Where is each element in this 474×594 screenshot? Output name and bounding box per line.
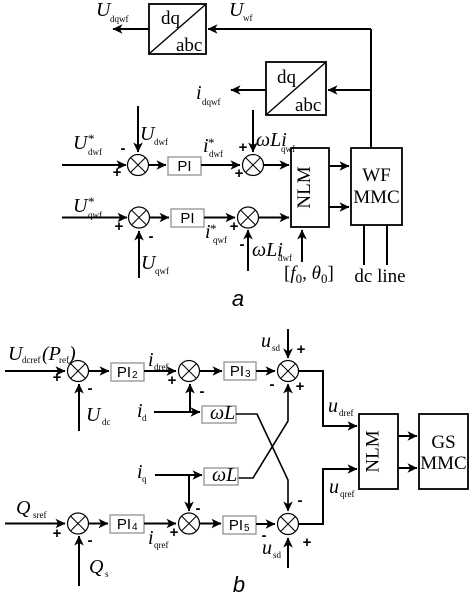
node U_dwf label	[140, 123, 168, 147]
svg-text:i: i	[196, 82, 202, 104]
svg-text:dq: dq	[161, 8, 181, 29]
svg-text:WF: WF	[362, 165, 391, 186]
wire i_q into omega-L bottom	[155, 474, 202, 476]
svg-text:GS: GS	[431, 432, 455, 453]
wire U_dqwf output from dq/abc block 1	[113, 28, 149, 30]
controller PI3	[224, 362, 256, 380]
wire PI4 to summer B5	[144, 523, 176, 525]
block GS MMC	[419, 414, 468, 489]
transform block dq/abc U1	[149, 4, 206, 56]
svg-text:4: 4	[132, 522, 138, 533]
node omega-L-i_dwf label	[252, 239, 292, 263]
wire i_dqwf output of block U2	[231, 89, 266, 91]
svg-text:PI: PI	[117, 516, 131, 533]
svg-text:MMC: MMC	[353, 187, 399, 208]
wire summer B6 output to NLM b (u_qref)	[299, 469, 358, 524]
summer S2	[243, 155, 264, 176]
svg-text:*: *	[210, 221, 217, 236]
svg-text:2: 2	[132, 370, 138, 381]
wire U_qwf up into summer S3	[138, 231, 140, 278]
svg-text:qref: qref	[340, 489, 355, 499]
svg-text:abc: abc	[176, 35, 202, 56]
controller PI a2	[171, 209, 204, 227]
wire NLM a to WF MMC lower	[329, 206, 349, 208]
svg-text:-: -	[200, 383, 205, 400]
svg-text:ref: ref	[59, 355, 69, 365]
svg-text:U: U	[86, 404, 102, 426]
summer B3	[278, 361, 299, 382]
node i_qref label	[148, 527, 169, 550]
wire f0 theta0 up into NLM a	[301, 230, 303, 262]
svg-text:s: s	[105, 569, 109, 579]
svg-text:+: +	[53, 525, 62, 542]
svg-text:+: +	[296, 378, 305, 395]
wire U_wf input to block U1	[208, 28, 371, 30]
svg-text:i: i	[148, 349, 154, 371]
node U_wf label	[229, 0, 253, 23]
svg-text:ωL: ωL	[212, 464, 237, 486]
controller PI4	[110, 515, 144, 533]
svg-text:U: U	[73, 132, 89, 154]
wire i_q branch down into summer B5	[188, 475, 190, 511]
wire summer S2 to NLM a	[264, 164, 290, 166]
wire summer B4 to PI4	[89, 523, 109, 525]
svg-text:PI: PI	[177, 158, 191, 175]
svg-text:Q: Q	[16, 497, 31, 519]
wire NLM a to WF MMC upper	[329, 165, 349, 167]
svg-text:U: U	[73, 195, 89, 217]
svg-text:-: -	[298, 492, 303, 509]
svg-text:PI: PI	[229, 517, 243, 534]
svg-text:-: -	[196, 500, 201, 517]
wire summer B5 to PI5	[200, 523, 222, 525]
svg-text:wf: wf	[243, 13, 253, 23]
node i_dqwf label	[196, 82, 221, 107]
svg-text:NLM: NLM	[294, 166, 315, 208]
node U_qwf label	[141, 252, 169, 276]
wire PI3 to summer B3	[256, 370, 275, 372]
svg-text:u: u	[262, 537, 272, 559]
svg-text:abc: abc	[295, 95, 321, 116]
node U*_dwf label	[73, 131, 102, 157]
svg-text:+: +	[53, 369, 62, 386]
svg-text:-: -	[88, 532, 93, 549]
wire U_dc up into summer B1	[78, 384, 80, 431]
svg-text:u: u	[261, 330, 271, 352]
wire PI a1 to summer S2	[201, 164, 240, 166]
node U_dcref (P_ref) label	[8, 343, 76, 365]
svg-text:*: *	[208, 135, 215, 150]
svg-text:qwf: qwf	[281, 144, 295, 154]
node omega-L-i_qwf label	[256, 129, 295, 154]
svg-text:dqwf: dqwf	[202, 97, 221, 107]
wire PI5 to summer B6	[256, 523, 275, 525]
svg-text:q: q	[142, 474, 147, 484]
controller PI5	[223, 516, 256, 534]
svg-text:*: *	[88, 131, 95, 146]
svg-text:d: d	[142, 413, 147, 423]
summer S4	[238, 207, 259, 228]
wire NLM b to GS MMC lower	[398, 467, 417, 469]
wire Q_sref into summer B4	[5, 523, 65, 525]
wire dc line left	[363, 225, 365, 265]
controller PI a1	[168, 157, 201, 175]
node U_dqwf label	[96, 0, 129, 24]
svg-text:+: +	[115, 218, 124, 235]
svg-text:5: 5	[244, 523, 250, 534]
svg-text:qwf: qwf	[213, 235, 227, 245]
summer B1	[68, 361, 89, 382]
wire summer S3 to PI a2	[150, 217, 170, 219]
wire summer B3 output to NLM b (u_dref)	[299, 371, 358, 426]
node Q_sref label	[16, 497, 47, 520]
svg-text:+: +	[303, 534, 312, 551]
svg-text:dcref: dcref	[22, 355, 40, 365]
block NLM b	[359, 414, 398, 489]
svg-text:dwf: dwf	[209, 149, 223, 159]
wire U*_qwf into summer S3	[62, 217, 127, 219]
summer B4	[68, 513, 89, 534]
svg-text:*: *	[88, 194, 95, 209]
svg-text:NLM: NLM	[363, 430, 384, 472]
gain block omega-L bottom	[204, 464, 238, 486]
wire i_d branch up into summer B2	[189, 384, 191, 412]
block NLM a	[291, 148, 329, 227]
wire PI a2 to summer S4	[204, 217, 235, 219]
wire summer B1 to PI2	[89, 370, 110, 372]
svg-text:sd: sd	[272, 343, 281, 353]
svg-text:dc line: dc line	[354, 266, 405, 287]
wire U*_dwf into summer S1	[62, 164, 126, 166]
svg-text:-: -	[240, 236, 245, 253]
summer S3	[129, 207, 150, 228]
wire U_dwf down into summer S1	[137, 106, 139, 152]
svg-text:-: -	[88, 380, 93, 397]
svg-text:dc: dc	[102, 417, 111, 427]
wire summer S1 to PI a1	[149, 164, 167, 166]
controller PI2	[111, 363, 144, 381]
svg-text:sref: sref	[33, 510, 47, 520]
node f0 theta0 label	[284, 263, 334, 286]
svg-text:+: +	[230, 218, 239, 235]
svg-text:PI: PI	[230, 363, 244, 380]
svg-text:+: +	[297, 341, 306, 358]
svg-text:dwf: dwf	[88, 147, 102, 157]
node u_qref label	[329, 476, 355, 499]
svg-text:qwf: qwf	[155, 266, 169, 276]
svg-text:-: -	[121, 140, 126, 157]
summer B2	[179, 361, 200, 382]
svg-text:dref: dref	[339, 408, 354, 418]
wire u_sd up into summer B6	[287, 538, 289, 568]
wire dc line right	[386, 225, 388, 265]
svg-text:-: -	[149, 228, 154, 245]
node u_dref label	[328, 395, 354, 418]
wire omega-L-i_dwf up into summer S4	[247, 230, 249, 271]
svg-text:dwf: dwf	[278, 253, 292, 263]
svg-text:dq: dq	[277, 67, 297, 88]
wire U_dcref into summer B1	[5, 370, 65, 372]
svg-text:+: +	[168, 372, 177, 389]
svg-text:dwf: dwf	[154, 137, 168, 147]
svg-text:PI: PI	[180, 210, 194, 227]
svg-text:qref: qref	[154, 540, 169, 550]
svg-text:u: u	[329, 476, 339, 498]
wire branch into dq/abc block 2	[328, 89, 371, 91]
summer S1	[128, 155, 149, 176]
node U_dc label	[86, 404, 111, 427]
wire Q_s up into summer B4	[78, 536, 80, 586]
svg-text:a: a	[232, 286, 244, 311]
svg-text:i: i	[148, 527, 154, 549]
wire summer B2 to PI3	[200, 370, 223, 372]
svg-text:u: u	[328, 395, 338, 417]
wire vertical bus from U_wf down to WF MMC	[370, 29, 372, 148]
wire omega-L-i_qwf down into summer S2	[252, 110, 254, 152]
wire omega-L top output crossing down into summer B6	[236, 414, 288, 511]
summer B6	[278, 514, 299, 535]
wire summer S4 to NLM a	[259, 217, 290, 219]
svg-text:dqwf: dqwf	[110, 14, 129, 24]
node i_d label	[137, 400, 147, 423]
svg-text:MMC: MMC	[420, 453, 466, 474]
wire omega-L bottom output crossing up into summer B3	[238, 384, 288, 478]
node i*_qwf label	[205, 221, 227, 245]
wire u_sd down into summer B3	[287, 329, 289, 358]
svg-text:b: b	[233, 572, 245, 594]
gain block omega-L top	[202, 402, 236, 424]
svg-text:+: +	[113, 164, 122, 181]
svg-text:PI: PI	[117, 364, 131, 381]
svg-text:3: 3	[245, 369, 251, 380]
svg-text:+: +	[170, 524, 179, 541]
node Q_s label	[89, 556, 109, 579]
node u_sd bottom label	[262, 537, 282, 560]
svg-text:sd: sd	[273, 550, 282, 560]
node i*_dwf label	[203, 135, 223, 159]
svg-text:+: +	[239, 139, 248, 156]
wire NLM b to GS MMC upper	[398, 435, 417, 437]
node i_dref label	[148, 349, 169, 372]
transform block dq/abc U2	[266, 62, 326, 116]
node i_q label	[137, 461, 147, 484]
wire PI2 to summer B2	[144, 370, 176, 372]
node U*_qwf label	[73, 194, 102, 220]
svg-text:ωL: ωL	[210, 402, 235, 424]
svg-text:-: -	[270, 376, 275, 393]
wire i_d into omega-L top	[154, 411, 200, 413]
svg-text:Q: Q	[89, 556, 104, 578]
summer B5	[179, 513, 200, 534]
block WF MMC	[351, 148, 402, 225]
node u_sd top label	[261, 330, 281, 353]
